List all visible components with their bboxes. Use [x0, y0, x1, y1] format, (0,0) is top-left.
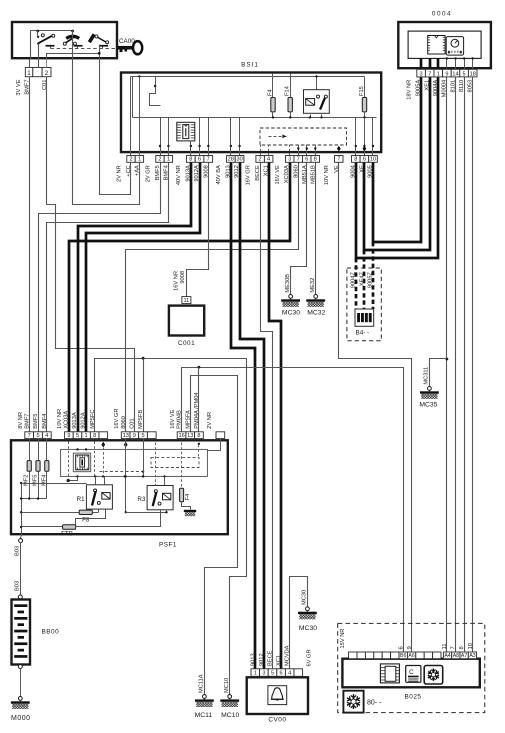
- bell symbol box: [268, 686, 287, 705]
- svg-text:6: 6: [363, 157, 366, 163]
- svg-text:C001: C001: [178, 340, 195, 347]
- svg-text:7: 7: [451, 646, 457, 649]
- BSI1 internal drop x=199.6: [199, 118, 201, 156]
- MF bus wire: [22, 498, 47, 500]
- svg-text:F4: F4: [185, 494, 191, 501]
- gauge symbol in 0004: [446, 37, 463, 56]
- svg-text:BMF5: BMF5: [155, 165, 161, 180]
- wire 9005Z dashed to B4: [372, 242, 375, 309]
- svg-text:0004: 0004: [432, 11, 452, 18]
- ground MC30: [281, 295, 300, 307]
- svg-text:+AA: +AA: [134, 165, 140, 176]
- svg-text:CV00: CV00: [268, 717, 286, 724]
- svg-text:R1: R1: [77, 496, 85, 503]
- svg-text:+CC: +CC: [126, 165, 132, 177]
- svg-text:XE4Z: XE4Z: [360, 271, 366, 286]
- fuse F4 in PSF1: [180, 488, 184, 502]
- svg-text:PM04A /PM04: PM04A /PM04: [194, 392, 200, 428]
- svg-text:9012: 9012: [234, 165, 240, 178]
- legend snowflake box: [343, 691, 363, 713]
- svg-text:7: 7: [207, 157, 210, 163]
- svg-text:7: 7: [428, 71, 431, 77]
- relay R1: [86, 485, 112, 509]
- wire 8101 0004 pin14 to B025 A8: [455, 77, 457, 653]
- svg-text:F8: F8: [82, 517, 90, 524]
- fuse MF2 in PSF1: [27, 461, 31, 472]
- PSF1 pin row2: [65, 432, 74, 439]
- ground M000: [11, 697, 30, 709]
- svg-text:6: 6: [305, 157, 308, 163]
- svg-text:BECE: BECE: [255, 165, 261, 181]
- svg-text:3: 3: [288, 157, 291, 163]
- svg-text:FTB: FTB: [61, 531, 73, 538]
- dashed link PM04A to module: [198, 445, 200, 458]
- svg-text:11: 11: [442, 643, 448, 649]
- wire R3 lower bus: [126, 512, 167, 514]
- svg-text:40V NR: 40V NR: [176, 165, 182, 185]
- svg-text:10: 10: [468, 643, 474, 649]
- BSI1 internal drop x=230.9: [230, 118, 232, 156]
- svg-text:9: 9: [133, 433, 136, 439]
- svg-text:MB51B: MB51B: [310, 165, 316, 184]
- svg-text:B03: B03: [15, 581, 21, 591]
- wire 9004 thick BSI1 to 0004 pin1: [356, 77, 438, 258]
- svg-text:BSI1: BSI1: [241, 62, 259, 69]
- svg-text:5: 5: [76, 433, 79, 439]
- engine fusebox PSF1 box: [11, 440, 228, 534]
- svg-text:BMF4: BMF4: [42, 414, 48, 429]
- svg-text:10V NR: 10V NR: [324, 165, 330, 185]
- svg-text:16V GR: 16V GR: [246, 165, 252, 185]
- svg-text:9013A: 9013A: [72, 412, 78, 429]
- PSF1 pin row3: [121, 432, 130, 439]
- svg-text:9013: 9013: [250, 653, 256, 666]
- svg-text:MC35: MC35: [419, 402, 437, 409]
- svg-text:BB00: BB00: [42, 629, 60, 636]
- svg-text:6: 6: [198, 157, 201, 163]
- svg-text:MC11A: MC11A: [199, 674, 205, 693]
- svg-text:C01: C01: [130, 418, 136, 428]
- bell glyph: [272, 688, 283, 699]
- diagnostic connector C001 box: [169, 306, 204, 336]
- svg-text:9: 9: [407, 646, 413, 649]
- svg-text:18: 18: [470, 71, 476, 77]
- fuse F8: [22, 512, 80, 514]
- BSI1 internal drop x=160: [160, 118, 162, 156]
- svg-text:C: C: [409, 669, 414, 676]
- svg-text:2V NR: 2V NR: [207, 412, 213, 429]
- switch contact 2 (with cam): [63, 36, 82, 48]
- junction on rail: [36, 30, 39, 33]
- svg-text:B6: B6: [400, 653, 406, 659]
- BSI1 module drop x=306.8: [306, 145, 308, 156]
- B025 pin row right: [443, 652, 451, 659]
- svg-text:5: 5: [36, 433, 39, 439]
- svg-text:A3: A3: [469, 653, 475, 659]
- clock symbol in B025: [406, 666, 421, 683]
- PSF1 left feed wire: [21, 484, 23, 537]
- svg-text:XC1: XC1: [276, 655, 282, 666]
- svg-text:40V BA: 40V BA: [216, 165, 222, 184]
- BSI1 box: [121, 73, 381, 153]
- wire +AA switch2 to BSI1: [73, 60, 140, 205]
- svg-text:14: 14: [452, 71, 458, 77]
- svg-text:10: 10: [370, 157, 376, 163]
- fuse MF4 in PSF1: [45, 461, 49, 472]
- svg-text:A7: A7: [461, 653, 467, 659]
- svg-text:8101: 8101: [450, 80, 456, 93]
- B025 box: [342, 659, 479, 688]
- BSI1 pin row group5: [256, 156, 265, 163]
- svg-text:16V VE: 16V VE: [170, 409, 176, 428]
- relay bottom wires: [310, 115, 312, 118]
- PSF1 pin row4: [177, 432, 186, 439]
- C001 pin 11: [182, 297, 191, 304]
- svg-text:6: 6: [398, 646, 404, 649]
- svg-text:MC11: MC11: [195, 712, 213, 719]
- junction M0004 / MC35 stub: [446, 358, 449, 361]
- BSI1 internal drop x=208.3: [208, 118, 210, 156]
- wire R1 coil to FTB line: [76, 510, 106, 525]
- svg-text:9005Z: 9005Z: [368, 271, 374, 288]
- battery plates: [14, 604, 27, 658]
- svg-text:18V NR: 18V NR: [406, 80, 412, 100]
- svg-text:9008: 9008: [203, 165, 209, 178]
- wire MP5F net PSF1 pin8 to MC10: [95, 359, 247, 695]
- BSI1 internal drop from IC x=190.9: [190, 141, 192, 156]
- svg-text:8060: 8060: [121, 416, 127, 429]
- svg-text:XC03A: XC03A: [63, 411, 69, 429]
- BSI1 pin row group3: [187, 156, 196, 163]
- wire MB51B BSI1 to ground MC32: [315, 163, 317, 295]
- svg-text:XE1: XE1: [424, 80, 430, 91]
- junction on rail at switch 2: [71, 30, 74, 33]
- wire +CC internal drop: [130, 77, 132, 156]
- wire CA00 mid pin stub: [38, 60, 40, 68]
- BSI1 pin row group8: [352, 156, 361, 163]
- svg-text:6: 6: [280, 671, 283, 677]
- B4 connector icon: [355, 309, 374, 326]
- fuse MF5 in PSF1: [36, 461, 40, 472]
- CA00 internal top rail: [31, 30, 74, 32]
- svg-text:11: 11: [183, 298, 189, 304]
- BSI1 internal drop x=239.6: [239, 118, 241, 156]
- svg-text:BMF7: BMF7: [24, 414, 30, 429]
- BSI1 module drop x=315.3: [315, 145, 317, 156]
- microcontroller symbol in BSI1: [177, 122, 195, 141]
- BSI1 pin row group4: [227, 156, 236, 163]
- svg-text:3V VE: 3V VE: [16, 79, 22, 95]
- svg-text:MC30: MC30: [282, 310, 300, 317]
- wire MP5FA PSF1 pin13 to MC11: [191, 376, 238, 695]
- svg-text:9004A: 9004A: [433, 80, 439, 97]
- snowflake symbol in B025: [424, 666, 443, 685]
- svg-text:7: 7: [337, 157, 340, 163]
- svg-text:4: 4: [288, 671, 291, 677]
- svg-text:9: 9: [445, 71, 448, 77]
- diamond junction at VE pin: [337, 146, 341, 152]
- wire PM04 net PSF1 pin16 to B025 B6: [182, 368, 404, 653]
- wire BECE BSI1 to CV00 pin5: [261, 163, 273, 669]
- fuse FTB: [22, 526, 63, 528]
- svg-text:MP5FB: MP5FB: [138, 410, 144, 429]
- wire battery to ground M000: [20, 669, 22, 697]
- svg-text:13: 13: [123, 433, 129, 439]
- fuse F4 in BSI1: [271, 98, 275, 112]
- wire MC311 stub to ground MC35: [430, 359, 447, 387]
- svg-text:MCVDA: MCVDA: [285, 645, 291, 666]
- B025 pin row middle blanks: [416, 652, 424, 659]
- BSI1 internal drop x=168.4: [168, 118, 170, 156]
- mechanical link dashed line to key: [51, 48, 117, 50]
- svg-text:2V NR: 2V NR: [116, 165, 122, 182]
- wire module to relay R3: [164, 477, 166, 486]
- svg-text:16V VE: 16V VE: [275, 165, 281, 184]
- wire rail to box bottom (pin 1 feed): [30, 31, 32, 60]
- wire MB51A BSI1 to ground MC30: [291, 163, 307, 295]
- wire B03 PSF1 to battery: [20, 537, 22, 539]
- junction PM04A branch: [198, 366, 201, 369]
- svg-text:4: 4: [267, 157, 270, 163]
- svg-text:MP5FC: MP5FC: [90, 410, 96, 429]
- svg-text:9008: 9008: [180, 271, 186, 284]
- wire switch2 down (+AA feed): [72, 31, 74, 60]
- PSF1 pin row1: [25, 432, 34, 439]
- BSI1 module drop x=298.3: [298, 145, 300, 156]
- wire PM04A branch to PSF1 pin8: [198, 368, 200, 432]
- svg-text:3: 3: [420, 71, 423, 77]
- wire VE BSI1 to B025 A6: [339, 163, 412, 653]
- module bottom edge junction dots: [76, 475, 78, 477]
- fuse F15 in BSI1: [362, 98, 366, 112]
- svg-text:8: 8: [197, 433, 200, 439]
- wire XE4Z dashed to B4: [363, 250, 366, 309]
- wire M0004 0004 pin9 to B025 A4: [446, 77, 448, 653]
- svg-text:7: 7: [28, 433, 31, 439]
- svg-text:F15: F15: [359, 86, 365, 96]
- svg-text:M0004: M0004: [442, 80, 448, 97]
- svg-text:F14: F14: [285, 86, 291, 96]
- wire +CC switch3 to BSI1: [100, 60, 131, 195]
- fuse F14 in BSI1: [288, 98, 292, 112]
- wire BMF7 CA00 pin1 to PSF1 pin7: [29, 77, 31, 432]
- svg-text:MP5FA: MP5FA: [185, 410, 191, 429]
- BSI1 internal drop right x=364.4: [364, 118, 366, 156]
- svg-text:10V NR: 10V NR: [57, 409, 63, 429]
- svg-text:80- -: 80- -: [367, 700, 382, 707]
- wire 8110 0004 pin5 to B025 A7: [464, 77, 466, 653]
- svg-text:8: 8: [314, 157, 317, 163]
- CV00 pin row: [251, 669, 260, 677]
- svg-text:MF5: MF5: [33, 475, 39, 486]
- wire MP5FB branch to PSF1: [143, 359, 145, 432]
- wire 9005 thick BSI1 to 0004 pin3: [373, 77, 421, 242]
- svg-text:MC311: MC311: [424, 367, 430, 385]
- wire 9008 BSI1 to C001: [187, 163, 209, 297]
- svg-text:8: 8: [93, 433, 96, 439]
- svg-text:1: 1: [85, 433, 88, 439]
- dashed pin links into module: [68, 442, 70, 477]
- junction +AA on top rail: [138, 75, 140, 77]
- wire 9013 thick BSI1 to CV00 pin1: [231, 162, 255, 669]
- wire CA00 pin1 stub: [29, 60, 31, 68]
- wire 8053 0004 pin18 to B025 A3: [472, 77, 474, 653]
- svg-text:BMF4: BMF4: [163, 165, 169, 180]
- svg-text:2: 2: [158, 157, 161, 163]
- svg-text:9004: 9004: [350, 165, 356, 178]
- wire 9013A thick BSI1 to PSF1: [78, 162, 191, 432]
- svg-text:VE: VE: [334, 165, 340, 173]
- wire C01 CA00 pin2 to PSF1: [47, 77, 135, 432]
- ignition switch CA00 box: [12, 22, 117, 58]
- PSF1 pin row5 2V NR: [216, 432, 225, 439]
- CA00 connector pins 1 2: [25, 68, 33, 77]
- svg-text:16V NR: 16V NR: [173, 271, 179, 291]
- relay top wire: [316, 77, 318, 90]
- wires MF fuses: [29, 439, 31, 461]
- svg-text:4: 4: [45, 433, 48, 439]
- svg-text:1: 1: [437, 71, 440, 77]
- svg-text:ME30B: ME30B: [285, 274, 291, 293]
- svg-text:MB51A: MB51A: [302, 165, 308, 184]
- svg-text:2: 2: [45, 70, 49, 77]
- wire 8060 BSI1 to PSF1 pin13: [126, 163, 299, 432]
- diamond junction marks below PSF1 pins: [101, 442, 105, 448]
- svg-text:1: 1: [138, 157, 141, 163]
- svg-text:8: 8: [459, 646, 465, 649]
- IC symbol in B025: [380, 664, 399, 683]
- wire 8060 pin13 internal drop: [125, 439, 127, 513]
- svg-text:13: 13: [187, 433, 193, 439]
- svg-text:2: 2: [259, 157, 262, 163]
- wire +AA internal drop: [139, 77, 141, 156]
- BSI1 internal bus rail: [133, 117, 377, 119]
- svg-text:8110: 8110: [459, 80, 465, 92]
- svg-text:9013: 9013: [225, 165, 231, 178]
- BSI1 pin row group1 +CC +AA: [127, 156, 135, 163]
- svg-text:9005A: 9005A: [416, 80, 422, 97]
- wire XC03A thick BSI1 to PSF1: [69, 162, 290, 432]
- internal ground in PSF1: [184, 510, 196, 516]
- wire feed to relay R1: [22, 483, 87, 485]
- svg-text:9012A: 9012A: [81, 412, 87, 429]
- battery BB00 box: [12, 600, 31, 665]
- svg-text:8053: 8053: [468, 80, 474, 93]
- IC symbol in 0004: [428, 36, 445, 55]
- svg-text:BECE: BECE: [267, 650, 273, 666]
- svg-text:9004Z: 9004Z: [350, 271, 356, 288]
- svg-text:8: 8: [189, 157, 192, 163]
- module inner dashed rect: [151, 457, 199, 467]
- diamond junction at XE pin: [363, 146, 367, 152]
- svg-text:XC03A: XC03A: [284, 165, 290, 183]
- wire CA00 pin2 stub: [46, 60, 48, 68]
- svg-text:2V GR: 2V GR: [145, 165, 151, 182]
- svg-text:M000: M000: [11, 715, 31, 722]
- svg-text:MC10: MC10: [224, 678, 230, 693]
- ground MC35: [420, 387, 439, 399]
- svg-text:MC10: MC10: [221, 712, 239, 719]
- wire BMF4 BSI1 to PSF1 pin4: [47, 163, 169, 432]
- wire XC1 thick BSI1 to CV00 pin6: [269, 162, 281, 669]
- svg-text:XC1: XC1: [264, 165, 270, 176]
- ground MC30 lower: [298, 607, 317, 619]
- relay in BSI1: [304, 90, 330, 114]
- BSI1 internal drop right x=355.8: [355, 118, 357, 156]
- svg-text:15V NR: 15V NR: [340, 629, 346, 649]
- wires module to relay R1: [95, 477, 97, 485]
- wire 9012A thick BSI1 to PSF1: [86, 162, 200, 432]
- svg-text:B4- -: B4- -: [356, 330, 370, 337]
- instrument cluster 0004 box: [398, 22, 491, 68]
- connector B4 dashed box: [347, 268, 381, 341]
- svg-text:9012: 9012: [259, 653, 265, 666]
- BSI1 internal module dashed box: [260, 128, 347, 145]
- BSI1 pin row group7: [335, 156, 344, 163]
- svg-text:1: 1: [27, 70, 31, 77]
- dashed link with arrow in module: [269, 136, 287, 138]
- siren CV00 box: [247, 677, 308, 714]
- svg-text:9012A: 9012A: [194, 165, 200, 182]
- svg-text:8060: 8060: [293, 165, 299, 178]
- svg-text:PM04B: PM04B: [177, 410, 183, 429]
- switch contact 3 (key lever): [89, 34, 108, 48]
- key symbol: [118, 46, 133, 50]
- battery terminal circle top: [18, 595, 22, 599]
- BSI1 module dashed drop x=268.7: [268, 145, 270, 156]
- 0004 pin row: [417, 69, 426, 77]
- BSI1 module dashed drop x=289.8: [289, 145, 291, 156]
- wire pin2 link inside CA00: [47, 54, 100, 60]
- svg-text:B025: B025: [405, 694, 422, 701]
- BSI1 module dashed drop x=260.2: [260, 145, 262, 156]
- svg-text:9: 9: [67, 433, 70, 439]
- wire switch1 to middle pin: [38, 44, 40, 60]
- svg-text:MC32: MC32: [307, 310, 325, 317]
- svg-text:7: 7: [297, 157, 300, 163]
- svg-text:A8: A8: [453, 653, 459, 659]
- svg-text:8: 8: [354, 157, 357, 163]
- BSI1 internal drop right x=373: [372, 118, 374, 156]
- PSF1 internal module box: [61, 449, 208, 476]
- svg-text:R3: R3: [137, 496, 145, 503]
- microcontroller symbol in PSF1: [73, 453, 90, 472]
- svg-text:A4: A4: [444, 653, 450, 659]
- junction MP5FB branch: [142, 357, 145, 360]
- svg-text:28: 28: [228, 157, 234, 163]
- svg-text:ME32: ME32: [310, 278, 316, 293]
- svg-text:16V GR: 16V GR: [114, 409, 120, 429]
- wire 9012 thick BSI1 to CV00 pin3: [240, 162, 264, 669]
- module stub wire with terminal dot: [69, 477, 78, 481]
- BSI1 pin row group6: [286, 156, 295, 163]
- svg-text:MC30: MC30: [302, 590, 308, 605]
- battery terminal circle bottom: [18, 665, 22, 669]
- svg-text:5: 5: [142, 433, 145, 439]
- wire XE thick BSI1 to 0004 pin7: [364, 77, 430, 250]
- svg-text:B03: B03: [15, 546, 21, 556]
- svg-text:PSF1: PSF1: [159, 542, 177, 549]
- svg-text:3: 3: [262, 671, 265, 677]
- wire switch3 down (+CC feed): [99, 45, 101, 60]
- switch contact 1: [37, 31, 55, 49]
- svg-text:9013A: 9013A: [185, 165, 191, 182]
- wire BMF5 BSI1 to PSF1 pin5: [39, 163, 161, 432]
- svg-text:9005: 9005: [368, 165, 374, 178]
- junction pin2 link / switch3: [98, 52, 101, 55]
- ground MC11: [195, 695, 214, 707]
- 0004 pin stubs: [420, 58, 423, 69]
